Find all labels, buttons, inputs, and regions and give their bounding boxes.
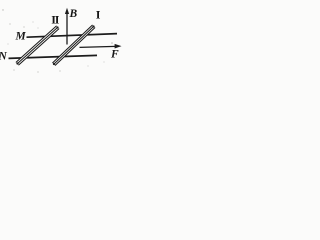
arrow F (applied force, right): [80, 44, 122, 49]
svg-text:B: B: [69, 8, 78, 20]
background: [0, 0, 125, 78]
rod II (left sliding conductor): [16, 26, 59, 65]
svg-text:I: I: [96, 8, 101, 22]
rod I (right sliding conductor): [53, 25, 95, 66]
svg-text:F: F: [110, 48, 119, 60]
svg-text:N: N: [0, 51, 8, 63]
wire: upper rail M: [27, 34, 118, 38]
wire: lower rail N: [9, 55, 98, 58]
arrow B (magnetic field, up): [65, 8, 69, 45]
scan speckles: [2, 9, 112, 72]
svg-text:M: M: [15, 30, 27, 42]
